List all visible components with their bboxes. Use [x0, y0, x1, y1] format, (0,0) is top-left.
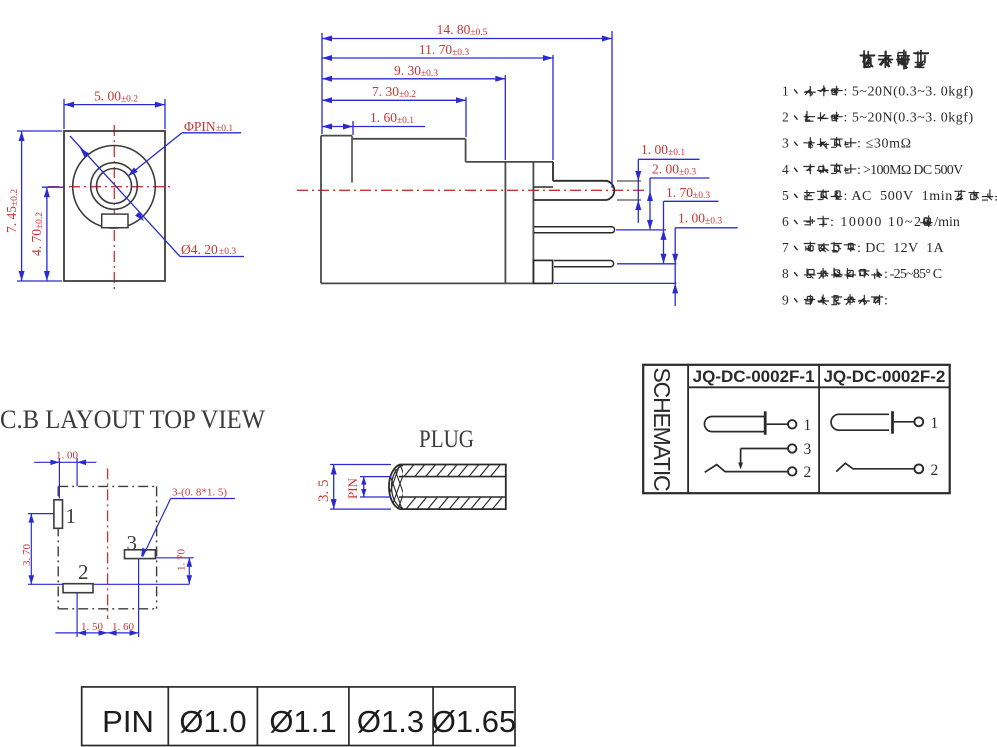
svg-text:1: 1	[66, 504, 77, 528]
svg-text:: AC 500V 1min: : AC 500V 1min	[844, 189, 953, 204]
svg-text:Ø1.0: Ø1.0	[179, 704, 246, 739]
svg-text:Ø1.3: Ø1.3	[357, 704, 424, 739]
svg-text:1: 1	[804, 417, 812, 434]
svg-text:±0.3: ±0.3	[219, 247, 236, 257]
svg-text:5. 00±0.2: 5. 00±0.2	[94, 89, 138, 105]
svg-text:1. 70: 1. 70	[176, 549, 188, 572]
svg-text:9: 9	[782, 292, 789, 307]
svg-text:2: 2	[782, 110, 789, 125]
svg-text:/min: /min	[934, 215, 960, 230]
svg-text:4: 4	[782, 162, 789, 177]
svg-text:: 5~20N(0.3~3. 0kgf): : 5~20N(0.3~3. 0kgf)	[844, 85, 974, 100]
svg-text:: DC 12V 1A: : DC 12V 1A	[857, 241, 944, 256]
svg-text::: :	[884, 293, 888, 308]
svg-text:11. 70±0.3: 11. 70±0.3	[419, 42, 470, 58]
svg-text:1: 1	[931, 415, 939, 432]
svg-text:3. 70: 3. 70	[21, 544, 33, 567]
svg-text:1. 60±0.1: 1. 60±0.1	[370, 110, 414, 126]
svg-text:PIN: PIN	[345, 477, 360, 499]
svg-text:3: 3	[127, 531, 138, 555]
svg-text:: 10000 10~20: : 10000 10~20	[830, 215, 931, 230]
svg-text:1. 50: 1. 50	[81, 621, 104, 633]
svg-text:1. 00±0.1: 1. 00±0.1	[641, 142, 685, 158]
svg-text:1: 1	[782, 84, 789, 99]
svg-text:PIN: PIN	[102, 704, 154, 739]
svg-text:14. 80±0.5: 14. 80±0.5	[437, 22, 488, 38]
svg-text:2. 00±0.3: 2. 00±0.3	[652, 162, 696, 178]
svg-text:2: 2	[78, 560, 89, 584]
svg-text:6: 6	[782, 214, 789, 229]
svg-text:2: 2	[931, 462, 939, 479]
svg-text:Ø1.1: Ø1.1	[269, 704, 336, 739]
svg-text:3-(0. 8*1. 5): 3-(0. 8*1. 5)	[172, 487, 227, 499]
svg-text:4. 70±0.2: 4. 70±0.2	[29, 212, 45, 256]
svg-text:9. 30±0.3: 9. 30±0.3	[394, 63, 438, 79]
svg-text:2: 2	[804, 464, 812, 481]
svg-text:7. 45±0.2: 7. 45±0.2	[4, 189, 20, 233]
svg-text:: >100MΩ DC 500V: : >100MΩ DC 500V	[857, 163, 963, 178]
svg-text:8: 8	[782, 266, 789, 281]
svg-text:5: 5	[782, 188, 789, 203]
svg-text:JQ-DC-0002F-1: JQ-DC-0002F-1	[693, 367, 815, 386]
svg-text:1. 60: 1. 60	[112, 621, 135, 633]
svg-text:3: 3	[782, 136, 789, 151]
svg-text:: 5~20N(0.3~3. 0kgf): : 5~20N(0.3~3. 0kgf)	[844, 111, 974, 126]
svg-text:3. 5: 3. 5	[316, 480, 332, 503]
svg-text:7: 7	[782, 240, 789, 255]
svg-text:7. 30±0.2: 7. 30±0.2	[372, 84, 416, 100]
svg-text:: ≤30mΩ: : ≤30mΩ	[857, 137, 912, 152]
svg-text:1. 70±0.3: 1. 70±0.3	[666, 185, 710, 201]
svg-text:Ø1.65: Ø1.65	[432, 704, 516, 739]
svg-text:C.B LAYOUT TOP VIEW: C.B LAYOUT TOP VIEW	[0, 405, 265, 434]
svg-text:1. 00±0.3: 1. 00±0.3	[678, 211, 722, 227]
svg-text:Ø4. 20: Ø4. 20	[181, 242, 218, 257]
svg-text:3: 3	[804, 441, 812, 458]
svg-text:1. 00: 1. 00	[56, 450, 79, 462]
svg-text:: -25~85° C: : -25~85° C	[884, 267, 942, 282]
svg-text:PLUG: PLUG	[419, 426, 474, 453]
svg-text:JQ-DC-0002F-2: JQ-DC-0002F-2	[823, 367, 945, 386]
svg-text:SCHEMATIC: SCHEMATIC	[649, 368, 675, 492]
svg-text:ΦPIN: ΦPIN	[184, 119, 216, 134]
